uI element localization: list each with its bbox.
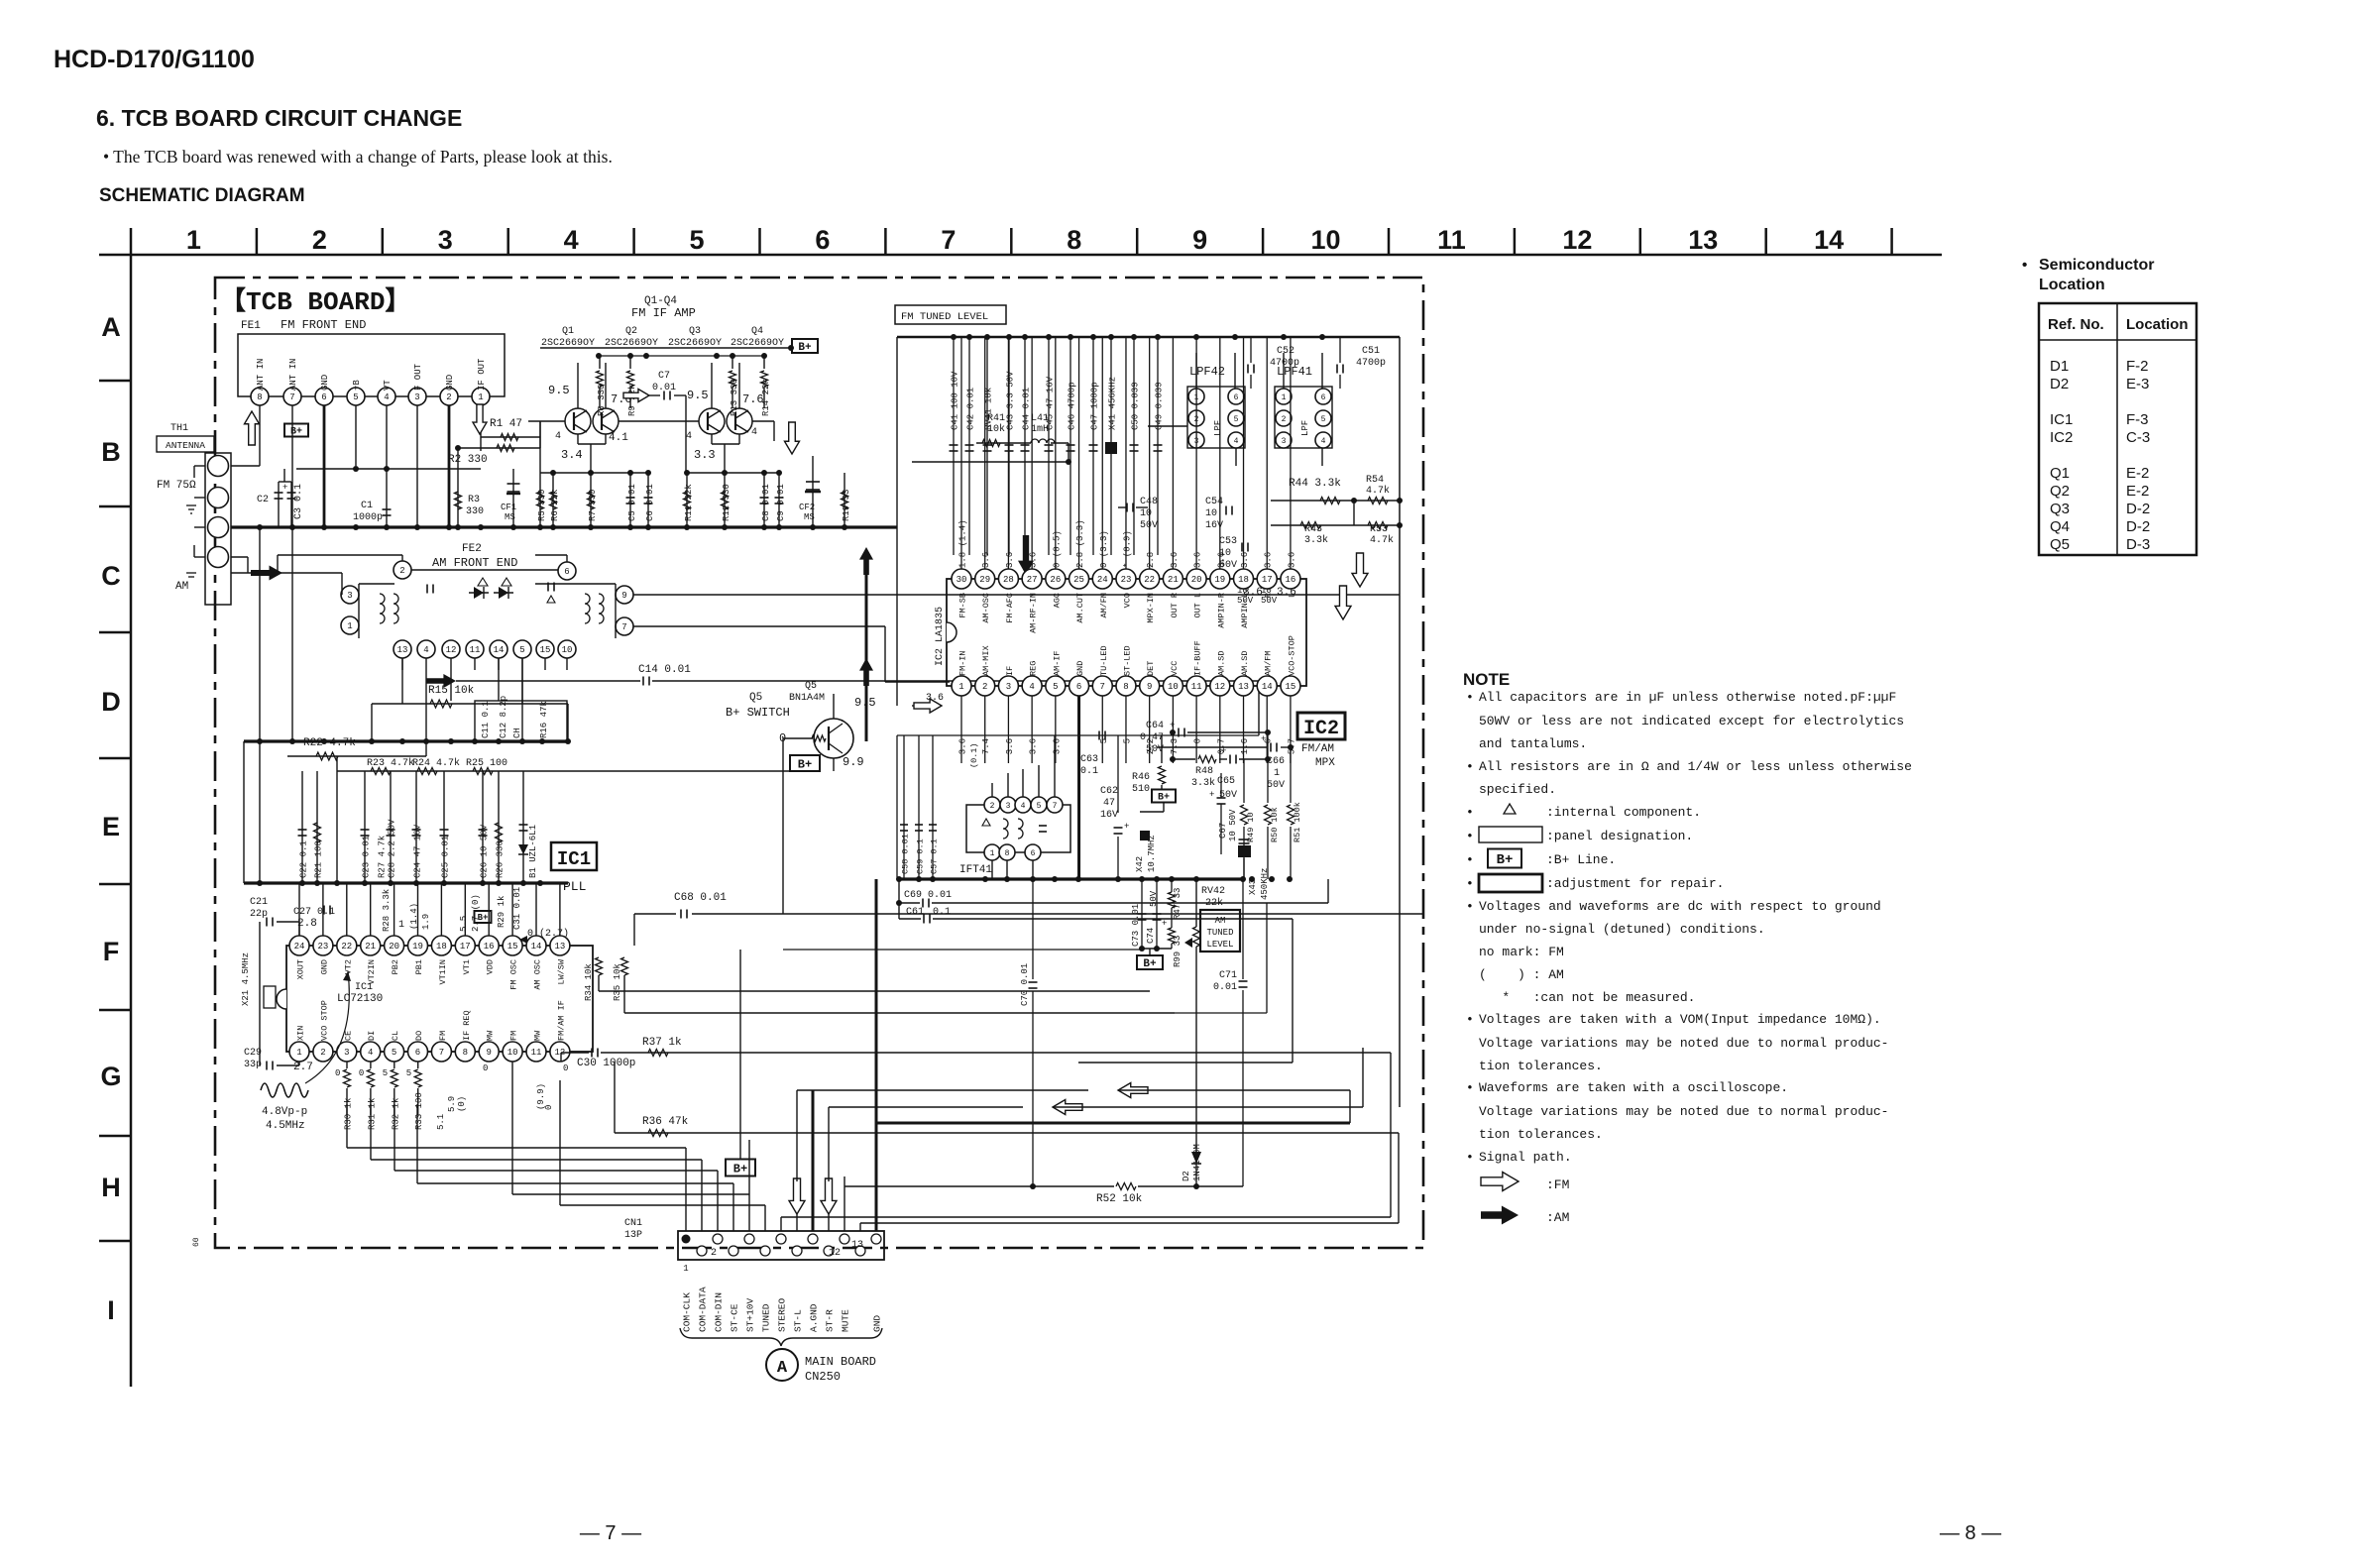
- svg-text:R50 10k: R50 10k: [1270, 807, 1280, 842]
- svg-text:14: 14: [1262, 682, 1273, 692]
- svg-text:R25 100: R25 100: [466, 758, 507, 769]
- svg-text:R28 3.3k: R28 3.3k: [382, 889, 392, 932]
- svg-text:CH: CH: [512, 728, 522, 738]
- svg-text:5: 5: [1053, 682, 1058, 692]
- svg-text:20: 20: [1191, 575, 1202, 585]
- svg-text:FM 75Ω: FM 75Ω: [157, 480, 196, 492]
- svg-text:21: 21: [365, 942, 376, 952]
- svg-text:C61: C61: [906, 907, 924, 918]
- svg-text:X21 4.5MHz: X21 4.5MHz: [241, 952, 251, 1006]
- svg-text:•: •: [1466, 1080, 1474, 1095]
- svg-text:FM IF AMP: FM IF AMP: [631, 306, 696, 320]
- svg-text:B+ SWITCH: B+ SWITCH: [726, 706, 790, 720]
- svg-text:17: 17: [1262, 575, 1273, 585]
- svg-text:+: +: [1124, 822, 1129, 832]
- svg-text:R6 22k: R6 22k: [550, 490, 560, 521]
- svg-text:L41: L41: [1031, 413, 1049, 424]
- svg-text:C24 47 16V: C24 47 16V: [413, 824, 423, 878]
- svg-text:•: •: [1466, 852, 1474, 867]
- svg-text:D-2: D-2: [2126, 518, 2150, 535]
- svg-text:C48: C48: [1140, 497, 1158, 507]
- svg-text:A.GND: A.GND: [809, 1303, 820, 1332]
- svg-text:C73 0.01: C73 0.01: [1131, 904, 1141, 947]
- svg-text:510: 510: [1132, 784, 1150, 795]
- svg-text:C47 1000p: C47 1000p: [1090, 382, 1100, 430]
- svg-text:H: H: [101, 1173, 121, 1202]
- svg-text:C3 0.1: C3 0.1: [293, 484, 304, 519]
- svg-text:R51 100k: R51 100k: [1293, 802, 1302, 842]
- svg-text:* (0.9): * (0.9): [1122, 530, 1132, 568]
- svg-text:C9 0.01: C9 0.01: [776, 484, 786, 521]
- svg-text:10: 10: [507, 1048, 518, 1058]
- svg-text:ANTENNA: ANTENNA: [166, 440, 205, 451]
- svg-text:C22 0.1: C22 0.1: [299, 840, 309, 878]
- svg-text:18: 18: [1238, 575, 1249, 585]
- svg-text:I: I: [107, 1295, 115, 1325]
- svg-text:1N4148M: 1N4148M: [1192, 1144, 1202, 1181]
- svg-text:AM-OSC: AM-OSC: [981, 593, 991, 623]
- svg-text:IF REQ: IF REQ: [462, 1010, 472, 1041]
- svg-text:AM.SD: AM.SD: [1216, 650, 1226, 676]
- svg-text:9.9: 9.9: [843, 755, 864, 769]
- svg-text:18: 18: [436, 942, 447, 952]
- svg-text:22p: 22p: [250, 909, 268, 920]
- svg-text:Ref. No.: Ref. No.: [2048, 316, 2104, 333]
- svg-text:1.9: 1.9: [421, 914, 431, 930]
- svg-text:C21: C21: [250, 897, 268, 908]
- svg-text:(9.9): (9.9): [536, 1083, 546, 1110]
- svg-text:C: C: [101, 561, 121, 591]
- svg-text:4.8Vp-p: 4.8Vp-p: [262, 1106, 307, 1118]
- svg-text:MPX: MPX: [1315, 757, 1335, 769]
- svg-text:GND: GND: [1075, 661, 1085, 676]
- svg-text:4: 4: [423, 645, 428, 655]
- svg-text:50V: 50V: [1267, 780, 1285, 791]
- svg-text:AM/FM: AM/FM: [1264, 650, 1274, 676]
- svg-text:C49 0.039: C49 0.039: [1155, 382, 1165, 430]
- svg-text:STEREO: STEREO: [777, 1297, 788, 1332]
- svg-text:3.6: 3.6: [926, 693, 944, 704]
- svg-text:14: 14: [531, 942, 542, 952]
- svg-text:3.6: 3.6: [1052, 738, 1062, 754]
- svg-text:•: •: [1466, 1150, 1474, 1165]
- svg-text:R27 4.7k: R27 4.7k: [378, 836, 388, 878]
- svg-text:CN1: CN1: [624, 1218, 642, 1229]
- svg-text:LPF: LPF: [1213, 420, 1223, 436]
- svg-text:D-3: D-3: [2126, 536, 2150, 553]
- svg-text:BN1A4M: BN1A4M: [789, 693, 825, 704]
- svg-text:2.8: 2.8: [297, 918, 317, 930]
- svg-text:0: 0: [359, 1068, 364, 1078]
- svg-text:【TCB BOARD】: 【TCB BOARD】: [220, 286, 410, 317]
- svg-text:3: 3: [1282, 437, 1287, 446]
- svg-text:FM-AFC: FM-AFC: [1005, 593, 1015, 623]
- svg-text:C59 0.1: C59 0.1: [916, 839, 926, 874]
- svg-text:IC1: IC1: [2050, 411, 2073, 428]
- svg-text:4700p: 4700p: [1270, 358, 1299, 369]
- svg-text:5: 5: [406, 1068, 411, 1078]
- svg-text::adjustment for repair.: :adjustment for repair.: [1546, 876, 1724, 891]
- svg-text:11: 11: [531, 1048, 542, 1058]
- svg-text:FM TUNED LEVEL: FM TUNED LEVEL: [901, 311, 988, 323]
- svg-text:DO: DO: [414, 1031, 424, 1041]
- svg-text:23: 23: [1121, 575, 1132, 585]
- svg-text:R32 1k: R32 1k: [391, 1098, 400, 1130]
- svg-text:+B: +B: [352, 380, 362, 391]
- svg-text:Location: Location: [2039, 277, 2105, 293]
- svg-text:15: 15: [1286, 682, 1296, 692]
- svg-text:IFT41: IFT41: [959, 864, 992, 876]
- svg-text:0 (3.3): 0 (3.3): [1099, 530, 1109, 568]
- svg-text:B+: B+: [733, 1162, 747, 1176]
- svg-text:R47 33: R47 33: [1173, 888, 1182, 920]
- svg-text:FE2: FE2: [462, 543, 482, 555]
- svg-text:MAIN BOARD: MAIN BOARD: [805, 1355, 876, 1369]
- svg-text:AMPIN-L: AMPIN-L: [1240, 593, 1250, 628]
- svg-text:— 8 —: — 8 —: [1940, 1522, 2001, 1544]
- svg-text:C2: C2: [257, 495, 269, 505]
- svg-text:LC72130: LC72130: [337, 993, 383, 1005]
- svg-text:MPX-IN: MPX-IN: [1146, 593, 1156, 623]
- svg-text:7.4: 7.4: [981, 738, 991, 754]
- svg-text:3.6: 3.6: [1029, 738, 1039, 754]
- svg-text:3: 3: [347, 591, 352, 601]
- svg-text:F-2: F-2: [2126, 358, 2149, 375]
- svg-text:D2: D2: [1182, 1171, 1191, 1181]
- svg-text:R2 330: R2 330: [448, 454, 488, 466]
- svg-text:CN250: CN250: [805, 1370, 841, 1384]
- svg-text:4: 4: [555, 431, 561, 442]
- svg-text:16V: 16V: [1100, 810, 1118, 821]
- svg-text:2: 2: [446, 392, 451, 402]
- svg-text:450KHz: 450KHz: [1260, 868, 1270, 900]
- svg-text:+: +: [1162, 919, 1167, 929]
- svg-text:B+: B+: [1158, 793, 1170, 804]
- svg-text:C23 0.01: C23 0.01: [362, 836, 372, 878]
- svg-text:R29 1k: R29 1k: [497, 896, 507, 928]
- svg-text:AM-MIX: AM-MIX: [981, 645, 991, 676]
- svg-text:C51: C51: [1362, 346, 1380, 357]
- svg-text:VDD: VDD: [486, 959, 496, 974]
- svg-text:B+: B+: [1497, 852, 1514, 868]
- svg-text:3.6: 3.6: [1029, 552, 1039, 568]
- svg-text:33p: 33p: [244, 1060, 262, 1070]
- svg-text:specified.: specified.: [1479, 782, 1556, 797]
- svg-text:R3: R3: [468, 495, 480, 505]
- svg-text:24: 24: [1097, 575, 1108, 585]
- svg-text:C71: C71: [1219, 970, 1237, 981]
- svg-text:6: 6: [415, 1048, 420, 1058]
- svg-text:REG: REG: [1029, 661, 1039, 676]
- svg-text:FM: FM: [509, 1031, 519, 1041]
- svg-text:0: 0: [335, 1068, 340, 1078]
- svg-text:C65: C65: [1217, 776, 1235, 787]
- svg-text:5: 5: [383, 1068, 388, 1078]
- svg-text:1: 1: [1282, 393, 1287, 402]
- svg-text:5: 5: [1234, 415, 1239, 424]
- svg-text:Q3: Q3: [689, 326, 701, 337]
- svg-text:R: R: [1264, 593, 1274, 598]
- svg-text::internal component.: :internal component.: [1546, 805, 1701, 820]
- svg-text:GND: GND: [320, 375, 330, 391]
- svg-text:5.5: 5.5: [459, 916, 469, 932]
- svg-text:NOTE: NOTE: [1463, 670, 1510, 689]
- svg-text:C50 0.039: C50 0.039: [1131, 382, 1141, 430]
- svg-text:C30 1000p: C30 1000p: [577, 1058, 635, 1069]
- svg-text:9.5: 9.5: [687, 389, 709, 402]
- svg-text:+: +: [1170, 721, 1175, 730]
- svg-text:3: 3: [438, 225, 453, 255]
- svg-text:•: •: [1466, 805, 1474, 820]
- svg-text:•: •: [1466, 829, 1474, 843]
- svg-text:AMPIN-R: AMPIN-R: [1216, 593, 1226, 628]
- svg-text:9: 9: [1147, 682, 1152, 692]
- svg-text:0: 0: [1193, 738, 1203, 743]
- svg-text:VCO: VCO: [1122, 593, 1132, 608]
- svg-text:50WV or less are not indicated: 50WV or less are not indicated except fo…: [1479, 714, 1904, 728]
- svg-text:FM OSC: FM OSC: [509, 959, 519, 990]
- svg-text:XIN: XIN: [296, 1026, 306, 1041]
- svg-text:B+: B+: [1143, 958, 1157, 970]
- svg-text:C27 0.1: C27 0.1: [293, 907, 335, 918]
- svg-text:VT: VT: [383, 380, 393, 391]
- svg-text:R19 33: R19 33: [842, 490, 851, 521]
- svg-text:Q4: Q4: [751, 326, 763, 337]
- svg-text:6: 6: [815, 225, 830, 255]
- svg-text:•: •: [2022, 257, 2027, 274]
- svg-text:29: 29: [979, 575, 990, 585]
- svg-text:4: 4: [368, 1048, 373, 1058]
- svg-text:2.7: 2.7: [293, 1062, 313, 1073]
- svg-text:GND: GND: [319, 959, 329, 974]
- svg-text:AM-IF: AM-IF: [1052, 650, 1062, 676]
- svg-text:C31 0.01: C31 0.01: [512, 887, 522, 930]
- svg-text:9: 9: [1192, 225, 1207, 255]
- svg-text:5: 5: [1321, 415, 1326, 424]
- svg-text:R16 47k: R16 47k: [539, 701, 549, 738]
- svg-text:15: 15: [507, 942, 518, 952]
- svg-text:6: 6: [564, 567, 569, 577]
- svg-text:C63: C63: [1080, 754, 1098, 765]
- svg-text:R7 330: R7 330: [588, 490, 598, 521]
- svg-text:C52: C52: [1277, 346, 1295, 357]
- svg-text:5.1: 5.1: [436, 1114, 446, 1130]
- svg-text:C70 0.01: C70 0.01: [1020, 963, 1030, 1006]
- svg-text::FM: :FM: [1546, 1177, 1569, 1192]
- svg-text:ST-CE: ST-CE: [730, 1303, 740, 1332]
- svg-text:Signal path.: Signal path.: [1479, 1150, 1572, 1165]
- svg-text:C12 8.2p: C12 8.2p: [499, 696, 508, 738]
- svg-text:C62: C62: [1100, 786, 1118, 797]
- svg-text:5: 5: [519, 645, 524, 655]
- svg-text:ST-R: ST-R: [825, 1309, 836, 1332]
- svg-text:tion tolerances.: tion tolerances.: [1479, 1059, 1603, 1073]
- svg-text:4: 4: [1321, 437, 1326, 446]
- svg-text:C-3: C-3: [2126, 429, 2150, 446]
- svg-text:IC1: IC1: [557, 848, 591, 870]
- svg-text:C53: C53: [1219, 536, 1237, 547]
- svg-text:VCC: VCC: [1170, 661, 1180, 676]
- svg-text:3.6: 3.6: [1264, 552, 1274, 568]
- svg-text:LW/SW: LW/SW: [556, 958, 566, 984]
- svg-text:LEVEL: LEVEL: [1206, 940, 1233, 950]
- svg-text:MS: MS: [804, 512, 815, 522]
- svg-text:R30 1k: R30 1k: [344, 1098, 354, 1130]
- svg-text:10: 10: [1168, 682, 1179, 692]
- svg-text:R11 22k: R11 22k: [684, 484, 694, 521]
- svg-text:R5 330: R5 330: [537, 490, 547, 521]
- svg-text:AM/FM: AM/FM: [1099, 593, 1109, 618]
- svg-text:3.6: 3.6: [981, 552, 991, 568]
- svg-text:2.8: 2.8: [1146, 552, 1156, 568]
- svg-text:13: 13: [1688, 225, 1718, 255]
- svg-text:4.5MHz: 4.5MHz: [266, 1120, 305, 1132]
- svg-text:C41 100 10V: C41 100 10V: [951, 371, 960, 430]
- svg-text:FM-IN: FM-IN: [958, 650, 968, 676]
- svg-text:12: 12: [446, 645, 457, 655]
- svg-text:DI: DI: [367, 1031, 377, 1041]
- svg-text:50V: 50V: [1140, 520, 1158, 531]
- svg-text:R15 10k: R15 10k: [428, 685, 475, 697]
- svg-text:20: 20: [389, 942, 399, 952]
- svg-text:C42 0.01: C42 0.01: [966, 388, 976, 430]
- svg-text:12: 12: [829, 1248, 841, 1259]
- svg-text:HCD-D170/G1100: HCD-D170/G1100: [54, 46, 255, 73]
- svg-text:10: 10: [1311, 225, 1341, 255]
- svg-text:E: E: [102, 812, 120, 841]
- svg-text:•: •: [1466, 876, 1474, 891]
- svg-text:5: 5: [1099, 738, 1109, 743]
- svg-text:B+: B+: [798, 342, 812, 354]
- svg-text::panel designation.: :panel designation.: [1546, 829, 1693, 843]
- svg-text:IF OUT: IF OUT: [477, 358, 487, 391]
- svg-text:(0): (0): [457, 1096, 467, 1112]
- svg-text:13: 13: [1238, 682, 1249, 692]
- svg-text:C74: C74: [1146, 928, 1156, 944]
- svg-text:8: 8: [463, 1048, 468, 1058]
- svg-text:B+: B+: [798, 757, 812, 771]
- svg-text:CL: CL: [391, 1031, 400, 1041]
- svg-text:R48: R48: [1195, 766, 1213, 777]
- svg-text:Voltage variations may be note: Voltage variations may be noted due to n…: [1479, 1104, 1888, 1119]
- svg-text:1: 1: [186, 225, 201, 255]
- svg-text:R12 330: R12 330: [722, 484, 732, 521]
- svg-text:A: A: [777, 1359, 788, 1378]
- svg-text:15: 15: [540, 645, 551, 655]
- svg-text:7.3: 7.3: [1170, 738, 1180, 754]
- svg-text:AM-RF-IN: AM-RF-IN: [1029, 593, 1039, 633]
- svg-text:E-3: E-3: [2126, 376, 2149, 392]
- svg-text:3: 3: [414, 392, 419, 402]
- svg-text:FM/AM: FM/AM: [1301, 743, 1334, 755]
- svg-text:Q5: Q5: [749, 692, 762, 704]
- svg-text:VT2IN: VT2IN: [367, 959, 377, 985]
- svg-text:1: 1: [990, 849, 995, 858]
- svg-text:26: 26: [1050, 575, 1061, 585]
- svg-text:X41 456KHz: X41 456KHz: [1108, 377, 1118, 430]
- svg-text:1: 1: [296, 1048, 301, 1058]
- svg-text:10: 10: [562, 645, 573, 655]
- svg-text:11: 11: [1191, 682, 1202, 692]
- svg-text:R49 10: R49 10: [1246, 812, 1256, 842]
- svg-text:F OUT: F OUT: [413, 363, 423, 391]
- svg-text:28: 28: [1003, 575, 1014, 585]
- svg-text:1.6: 1.6: [1240, 738, 1250, 754]
- svg-text:XOUT: XOUT: [296, 959, 306, 979]
- svg-text:2.8 (3.3): 2.8 (3.3): [1075, 519, 1085, 568]
- svg-text:C44 0.01: C44 0.01: [1022, 388, 1032, 430]
- svg-text:4: 4: [1021, 802, 1026, 811]
- svg-text:MUTE: MUTE: [841, 1309, 851, 1332]
- svg-text:3.3: 3.3: [694, 448, 716, 462]
- svg-text:TUNED: TUNED: [761, 1303, 772, 1332]
- svg-text:4700p: 4700p: [1356, 358, 1386, 369]
- svg-text:C11 0.1: C11 0.1: [481, 701, 491, 738]
- svg-text:2: 2: [1282, 415, 1287, 424]
- svg-text:3: 3: [344, 1048, 349, 1058]
- svg-text:13: 13: [851, 1240, 863, 1251]
- svg-text:R33 100: R33 100: [414, 1092, 424, 1130]
- svg-text:C57 0.1: C57 0.1: [930, 839, 940, 874]
- svg-text:19: 19: [1214, 575, 1225, 585]
- svg-text:8: 8: [1123, 682, 1128, 692]
- svg-text:R26 330: R26 330: [496, 840, 506, 878]
- svg-text:C43 3.3 50V: C43 3.3 50V: [1006, 371, 1016, 430]
- svg-text:AM: AM: [175, 581, 188, 593]
- svg-text::AM: :AM: [1546, 1210, 1569, 1225]
- svg-text:IC2 LA1835: IC2 LA1835: [935, 607, 946, 666]
- svg-text:0: 0: [563, 1064, 568, 1073]
- svg-text:0.47: 0.47: [1140, 732, 1164, 743]
- svg-text:IC2: IC2: [2050, 429, 2073, 446]
- svg-text:R1 47: R1 47: [490, 418, 522, 430]
- svg-text:3.6: 3.6: [1193, 552, 1203, 568]
- svg-text:2: 2: [312, 225, 327, 255]
- svg-text:All capacitors are in µF unles: All capacitors are in µF unless otherwis…: [1479, 690, 1896, 705]
- svg-text:27: 27: [1027, 575, 1038, 585]
- svg-text:7: 7: [1100, 682, 1105, 692]
- svg-text:8: 8: [1067, 225, 1081, 255]
- svg-text:R36 47k: R36 47k: [642, 1116, 689, 1128]
- svg-text:ST-L: ST-L: [793, 1309, 804, 1332]
- svg-text:E-2: E-2: [2126, 465, 2149, 482]
- svg-text:SCHEMATIC DIAGRAM: SCHEMATIC DIAGRAM: [99, 185, 305, 206]
- svg-text:7: 7: [621, 622, 626, 632]
- svg-text:Q5: Q5: [2050, 536, 2070, 553]
- svg-text:•: •: [1466, 759, 1474, 774]
- svg-text:1: 1: [1274, 768, 1280, 779]
- svg-text:IF: IF: [1005, 666, 1015, 676]
- svg-text:R34 10k: R34 10k: [584, 963, 594, 1001]
- svg-text:C66: C66: [1267, 756, 1285, 767]
- svg-text:under no-signal (detuned) cond: under no-signal (detuned) conditions.: [1479, 922, 1765, 937]
- svg-text:5: 5: [353, 392, 358, 402]
- svg-text:VT1IN: VT1IN: [438, 959, 448, 985]
- svg-text:GND: GND: [872, 1315, 883, 1332]
- svg-text:Voltage variations may be note: Voltage variations may be noted due to n…: [1479, 1036, 1888, 1051]
- svg-text:23: 23: [317, 942, 328, 952]
- svg-text:0.1: 0.1: [933, 907, 951, 918]
- svg-text:4.1: 4.1: [609, 432, 628, 444]
- svg-text:3.6: 3.6: [1240, 552, 1250, 568]
- svg-text:(0.1): (0.1): [969, 742, 979, 768]
- svg-text:8: 8: [1005, 849, 1010, 858]
- svg-text:TUNED: TUNED: [1206, 928, 1233, 938]
- svg-text:2: 2: [320, 1048, 325, 1058]
- svg-text:2: 2: [711, 1248, 717, 1259]
- svg-text:tion tolerances.: tion tolerances.: [1479, 1127, 1603, 1142]
- svg-text:VCO STOP: VCO STOP: [319, 1000, 329, 1041]
